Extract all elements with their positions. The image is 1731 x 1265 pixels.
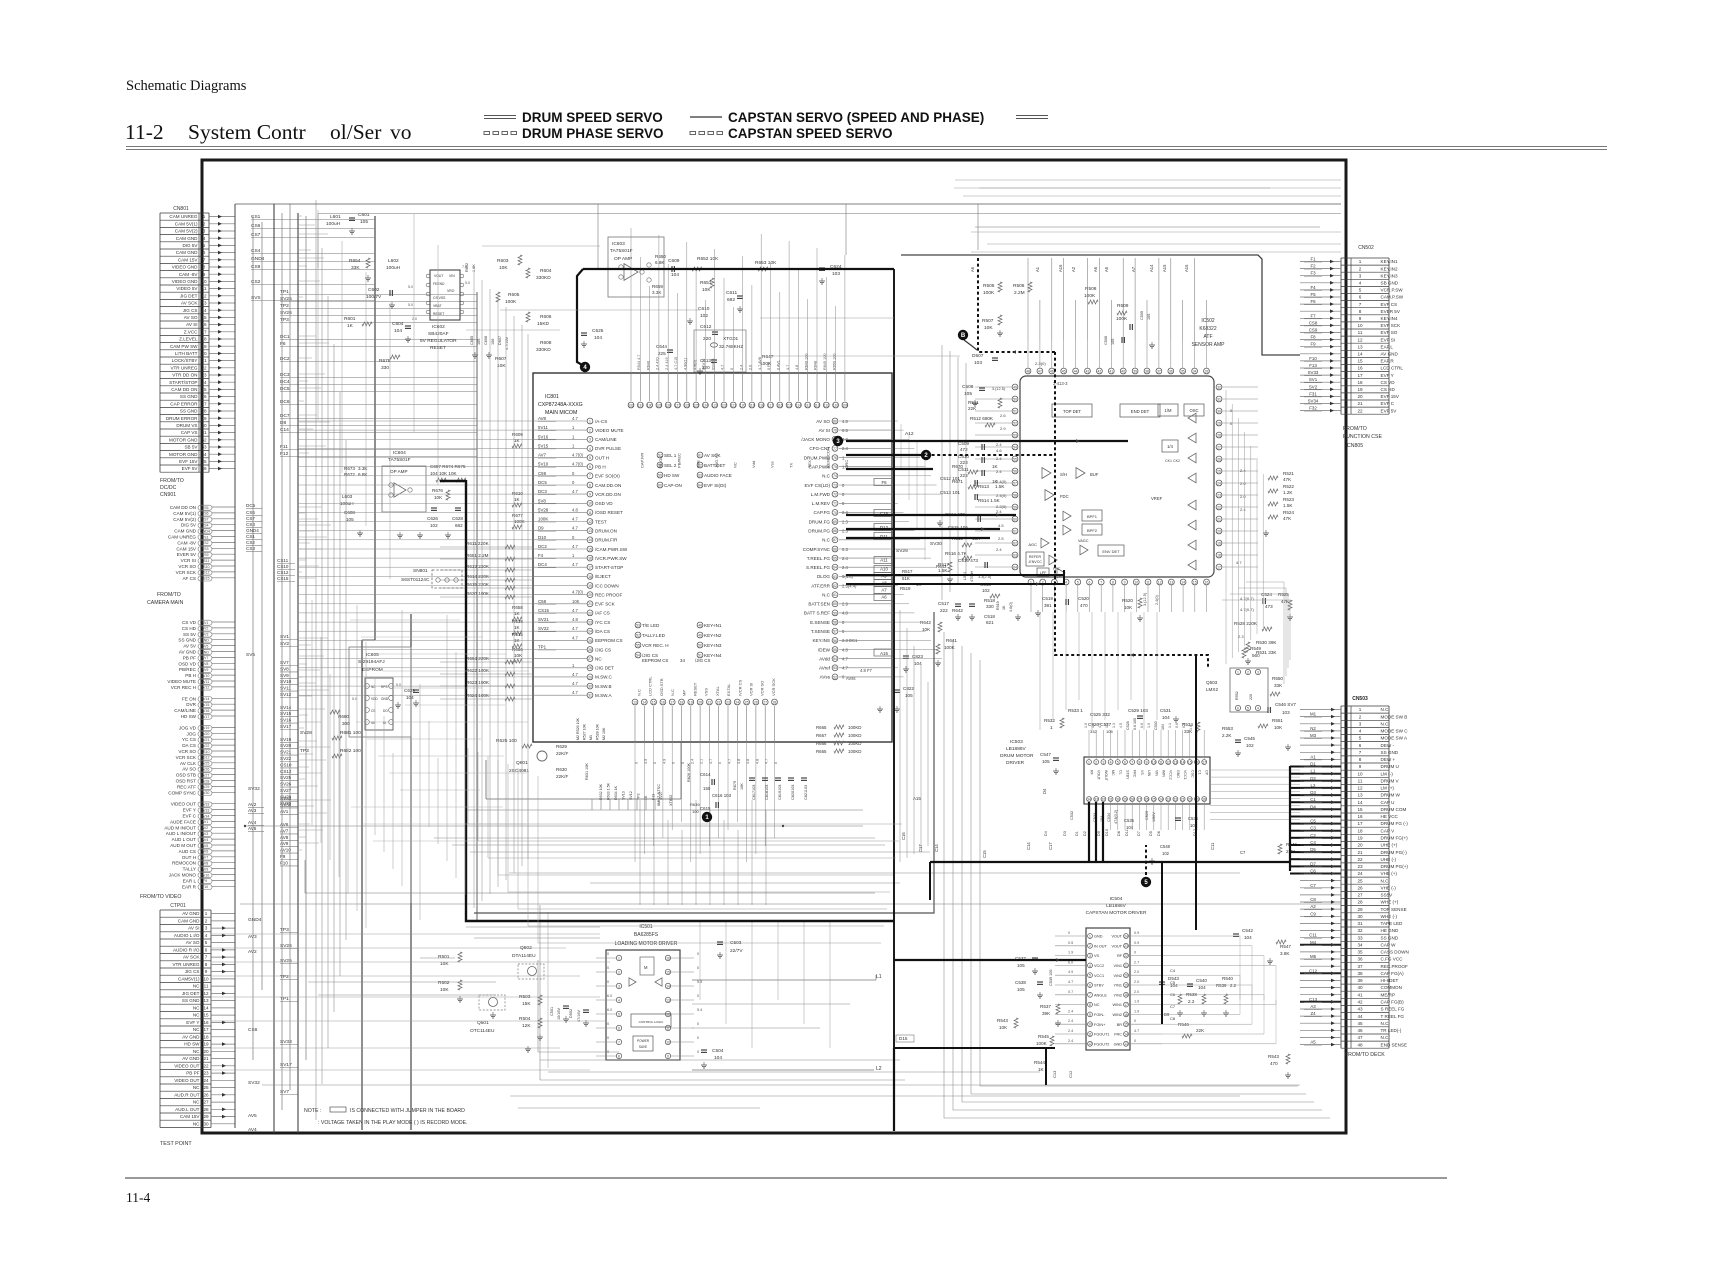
svg-text:2.4: 2.4 [1240,468,1246,473]
svg-text:WIN: WIN [1162,770,1166,777]
svg-text:0.6: 0.6 [1175,723,1179,728]
svg-text:10K: 10K [440,987,449,993]
svg-text:CS HD: CS HD [1381,387,1396,392]
svg-text:VIN: VIN [449,274,455,278]
svg-text:10K: 10K [984,325,993,331]
svg-text:VIDEO OUT: VIDEO OUT [174,1064,199,1069]
svg-text:OSD RST: OSD RST [176,779,197,784]
svg-text:R651: R651 [700,280,712,286]
svg-text:16: 16 [201,322,207,327]
svg-text:1.5K: 1.5K [995,484,1005,489]
svg-text:CS6: CS6 [202,512,209,516]
svg-text:IN OUT: IN OUT [1094,944,1108,948]
svg-text:1.8K: 1.8K [472,264,476,272]
svg-text:9: 9 [1124,580,1126,584]
svg-text:0.5: 0.5 [1068,941,1073,945]
svg-text:20: 20 [1357,843,1363,848]
svg-text:EVF SI: EVF SI [1381,337,1396,342]
svg-text:5: 5 [1077,580,1079,584]
svg-text:24: 24 [1159,797,1163,801]
svg-text:13: 13 [1357,344,1363,349]
svg-text:18: 18 [680,700,684,704]
svg-text:7: 7 [1131,760,1133,764]
svg-text:D607: D607 [498,336,502,345]
svg-text:12: 12 [1088,1042,1092,1046]
svg-text:AUD L IN/OUT: AUD L IN/OUT [166,831,196,836]
svg-text:PB PF: PB PF [186,1071,199,1076]
svg-text:VHE (+): VHE (+) [1381,871,1398,876]
svg-text:57: 57 [833,630,837,634]
svg-text:/DEW: /DEW [818,647,831,652]
svg-text:CS9: CS9 [202,553,209,557]
svg-text:SS GND: SS GND [182,998,200,1003]
svg-text:FROM/TO: FROM/TO [160,478,184,484]
svg-text:/VCR.PWR.SW: /VCR.PWR.SW [595,556,627,561]
svg-text:4.7: 4.7 [1134,1029,1139,1033]
svg-text:52: 52 [833,675,837,679]
svg-text:2.0: 2.0 [749,365,753,370]
svg-text:FRC: FRC [1114,1033,1122,1037]
svg-text:9: 9 [1359,316,1362,321]
svg-text:34: 34 [680,658,685,663]
svg-text:29: 29 [201,416,207,421]
svg-text:/AF CS: /AF CS [595,611,610,616]
svg-text:17: 17 [1357,373,1363,378]
svg-text:SVS: SVS [251,295,261,301]
svg-text:HE VCC: HE VCC [1381,814,1399,819]
svg-text:2: 2 [203,221,206,226]
svg-text:DRUM U: DRUM U [1381,764,1399,769]
svg-text:TEST: TEST [595,519,607,524]
svg-text:AV4: AV4 [248,1127,257,1133]
svg-text:26: 26 [1357,885,1363,890]
svg-text:REMOCON: REMOCON [172,861,196,866]
svg-text:M: M [644,965,648,970]
svg-text:C505: C505 [1140,311,1144,320]
svg-text:D9: D9 [538,526,544,531]
svg-text:REC PROOF: REC PROOF [595,593,623,598]
svg-text:/DA CS: /DA CS [595,629,610,634]
svg-text:22/7V: 22/7V [730,948,743,954]
svg-text:NC: NC [733,462,738,468]
svg-text:R550: R550 [1272,676,1283,681]
svg-text:35: 35 [201,459,207,464]
svg-text:63: 63 [1013,553,1017,557]
svg-text:F13: F13 [1309,363,1317,368]
svg-text:CAP-ON: CAP-ON [664,483,682,488]
svg-text:PB/REC: PB/REC [179,667,197,672]
svg-text:AV7: AV7 [280,828,289,833]
svg-text:F10: F10 [202,885,208,889]
svg-text:4: 4 [618,998,620,1002]
svg-text:C518: C518 [984,614,995,619]
svg-text:CS1: CS1 [251,214,261,220]
svg-text:SS GND: SS GND [180,394,198,399]
svg-text:CN801: CN801 [173,206,189,212]
svg-text:821: 821 [986,620,994,625]
svg-text:14: 14 [666,984,670,988]
svg-text:100uH: 100uH [386,265,401,271]
svg-text:SB 5V: SB 5V [184,445,198,450]
svg-text:AV SI: AV SI [188,926,199,931]
svg-text:CS6: CS6 [251,223,261,229]
svg-text:17: 17 [1124,1003,1128,1007]
svg-text:22: 22 [201,365,207,370]
svg-text:VRO: VRO [447,289,455,293]
svg-text:CAM.P.SW: CAM.P.SW [1381,295,1404,300]
svg-text:CAM.DD.ON: CAM.DD.ON [595,483,621,488]
svg-text:TRC: TRC [844,460,849,468]
svg-text:FROM/TO: FROM/TO [157,592,181,598]
svg-text:CAP VS: CAP VS [181,430,198,435]
svg-text:17: 17 [1202,760,1206,764]
svg-text:2.6: 2.6 [1000,413,1006,418]
svg-text:IS CONNECTED WITH JUMPER IN TH: IS CONNECTED WITH JUMPER IN THE BOARD [350,1108,465,1114]
svg-text:CS VD: CS VD [1381,380,1396,385]
svg-text:HD SW: HD SW [184,1042,200,1047]
svg-text:R524: R524 [1283,510,1294,515]
svg-text:14: 14 [203,1006,209,1011]
svg-text:T/E LED: T/E LED [642,623,660,628]
svg-text:C609: C609 [668,258,680,264]
svg-text:C644: C644 [656,344,667,349]
svg-text:5: 5 [1089,974,1091,978]
svg-text:12: 12 [201,293,207,298]
svg-text:M3: M3 [1310,733,1317,738]
svg-text:4.7: 4.7 [721,365,725,370]
svg-text:M2 R526 10K: M2 R526 10K [576,717,580,740]
svg-text:19: 19 [1217,541,1221,545]
svg-text:25: 25 [588,639,592,643]
svg-text:10K: 10K [572,599,580,604]
svg-text:DRUM COM: DRUM COM [1381,807,1407,812]
svg-text:1K: 1K [514,611,521,616]
svg-text:4: 4 [203,236,206,241]
svg-text:C13: C13 [1309,997,1318,1002]
svg-text:A3: A3 [1310,1004,1316,1009]
svg-text:104: 104 [594,335,602,341]
svg-text:/CC DOWN: /CC DOWN [595,583,619,588]
svg-text:VTR DD ON: VTR DD ON [172,373,197,378]
svg-text:TP3: TP3 [280,317,289,323]
svg-text:OSD VD: OSD VD [595,501,613,506]
svg-text:R613 220K: R613 220K [466,564,490,569]
svg-text:R540: R540 [1222,976,1233,981]
svg-text:39: 39 [1133,369,1137,373]
svg-text:C818103: C818103 [765,785,769,800]
svg-text:A16: A16 [1184,264,1189,272]
svg-text:43: 43 [1357,1007,1363,1012]
svg-text:59: 59 [1013,505,1017,509]
svg-text:VREF: VREF [1151,496,1163,501]
svg-text:DC2: DC2 [280,356,290,362]
svg-text:16: 16 [666,956,670,960]
svg-text:VCC2: VCC2 [1169,770,1173,780]
svg-text:DVR: DVR [186,702,196,707]
svg-text:51: 51 [1013,409,1017,413]
svg-text:100K: 100K [505,299,517,305]
svg-text:62: 62 [833,584,837,588]
svg-text:50: 50 [698,643,702,647]
svg-text:R516 4.7K: R516 4.7K [945,551,968,556]
svg-text:19: 19 [203,1042,209,1047]
svg-text:9: 9 [1146,760,1148,764]
svg-text:VDD: VDD [371,697,378,701]
svg-text:SV14: SV14 [201,697,210,701]
svg-text:R826 100K: R826 100K [687,763,691,782]
svg-text:DRUM.F/R: DRUM.F/R [595,538,618,543]
svg-text:F10: F10 [280,860,288,865]
svg-text:0: 0 [607,1022,609,1026]
svg-text:9: 9 [667,1054,669,1058]
svg-text:TA75S01F: TA75S01F [388,457,411,463]
svg-text:21: 21 [708,700,712,704]
svg-text:22: 22 [1124,954,1128,958]
svg-text:34: 34 [201,452,207,457]
svg-text:TEST POINT: TEST POINT [160,1141,192,1147]
svg-text:R677: R677 [512,513,523,518]
svg-text:SV5: SV5 [246,652,255,658]
svg-text:7: 7 [205,955,208,960]
svg-text:13: 13 [588,529,592,533]
svg-text:EVF CS(LD): EVF CS(LD) [804,483,830,488]
svg-text:C525 332: C525 332 [1090,712,1110,717]
svg-text:SV29: SV29 [201,785,210,789]
svg-text:VIN2: VIN2 [1114,974,1122,978]
svg-text:R615 220K: R615 220K [466,582,490,587]
svg-text:SV11: SV11 [201,680,210,684]
svg-text:3: 3 [589,438,591,442]
svg-text:WHE (-): WHE (-) [1381,914,1398,919]
svg-text:R638: R638 [512,619,523,624]
svg-text:1K: 1K [347,323,354,329]
svg-text:BATT S.REF: BATT S.REF [804,611,830,616]
svg-text:5.0: 5.0 [352,697,357,701]
svg-text:R519: R519 [996,601,1000,610]
svg-text:CAM DD ON: CAM DD ON [171,387,197,392]
svg-text:N.C: N.C [822,474,831,479]
svg-text:14: 14 [642,700,646,704]
svg-text:A12: A12 [905,431,914,437]
svg-text:F32: F32 [1309,406,1317,411]
svg-text:C545: C545 [1244,736,1255,741]
svg-text:IC603: IC603 [612,241,625,247]
svg-text:DRUM VS: DRUM VS [176,423,197,428]
svg-text:SV26: SV26 [201,768,210,772]
svg-text:-ENVCC: -ENVCC [1028,560,1042,564]
svg-text:AV GND: AV GND [182,911,200,916]
svg-text:15: 15 [1124,1023,1128,1027]
svg-text:C819103: C819103 [778,785,782,800]
svg-text:12: 12 [1357,337,1363,342]
svg-text:100uH: 100uH [326,221,341,227]
svg-text:113: 113 [805,403,811,407]
svg-text:5: 5 [203,243,206,248]
svg-text:GND4: GND4 [246,528,259,533]
svg-text:D3: D3 [1310,790,1316,795]
svg-text:AV7: AV7 [202,856,209,860]
svg-text:C12: C12 [1068,1070,1073,1078]
svg-text:BPF2: BPF2 [1087,528,1098,533]
svg-text:47K: 47K [1283,477,1292,482]
svg-text:ME/RP: ME/RP [1381,992,1396,997]
svg-text:10: 10 [1134,580,1138,584]
svg-text:L.M.REV: L.M.REV [812,501,831,506]
svg-text:EAP.L: EAP.L [1381,344,1394,349]
svg-text:40: 40 [1357,985,1363,990]
svg-text:5.0: 5.0 [396,683,401,687]
svg-text:102: 102 [1162,851,1170,856]
svg-text:0: 0 [697,994,699,998]
svg-text:22K: 22K [968,406,977,411]
svg-text:9: 9 [205,969,208,974]
svg-text:D502: D502 [569,1009,573,1018]
svg-text:EVF SI(DI): EVF SI(DI) [704,483,727,488]
svg-text:44: 44 [1357,1014,1363,1019]
svg-text:AV SCK: AV SCK [183,955,200,960]
svg-text:35: 35 [1357,950,1363,955]
svg-text:19: 19 [1124,983,1128,987]
svg-text:100: 100 [692,809,699,814]
svg-text:4.7: 4.7 [572,416,578,421]
svg-text:15: 15 [588,547,592,551]
svg-text:R543: R543 [1268,1054,1279,1059]
svg-text:0.7: 0.7 [1068,990,1073,994]
svg-text:C.FG VCC: C.FG VCC [1381,957,1404,962]
svg-text:6: 6 [1089,983,1091,987]
svg-text:60: 60 [658,483,662,487]
svg-text:C535: C535 [1124,818,1135,823]
svg-text:DO: DO [383,709,388,713]
svg-text:OP AMP: OP AMP [390,469,408,474]
svg-text:33K: 33K [351,265,360,271]
svg-text:TX: TX [788,463,793,468]
svg-text:DC3: DC3 [280,372,290,378]
svg-text:IC501: IC501 [639,924,653,930]
svg-text:53: 53 [833,666,837,670]
svg-text:14: 14 [588,538,592,542]
svg-text:131: 131 [637,403,643,407]
svg-text:S-29194AFJ: S-29194AFJ [358,659,385,665]
svg-text:COMP SYNC: COMP SYNC [168,790,196,795]
svg-text:UHE (-): UHE (-) [1381,857,1397,862]
svg-text:80: 80 [833,419,837,423]
svg-text:A16: A16 [880,651,888,656]
svg-text:C5: C5 [1170,980,1176,985]
svg-text:M.SW.B: M.SW.B [595,684,612,689]
svg-text:22: 22 [1357,408,1363,413]
svg-text:104: 104 [1244,935,1252,940]
svg-text:16: 16 [203,1020,209,1025]
svg-text:100K: 100K [1036,1041,1048,1046]
svg-text:0: 0 [681,762,685,764]
svg-text:22: 22 [203,1064,209,1069]
svg-text:STBY: STBY [1094,984,1104,988]
svg-text:EAR L: EAR L [183,878,197,883]
svg-text:AV9: AV9 [202,867,209,871]
svg-text:SV33: SV33 [1308,370,1319,375]
svg-text:CAMERA MAIN: CAMERA MAIN [147,600,184,606]
svg-text:K68322: K68322 [1199,326,1216,332]
svg-text:KEY.IN2: KEY.IN2 [1381,266,1398,271]
svg-text:R543: R543 [997,1018,1008,1023]
svg-text:7: 7 [618,1040,620,1044]
svg-text:GND: GND [201,650,209,654]
svg-text:13: 13 [1124,1042,1128,1046]
svg-text:SV1: SV1 [202,621,209,625]
svg-text:R545: R545 [1038,1034,1049,1039]
svg-text:1.3: 1.3 [1112,723,1116,728]
svg-text:8: 8 [1138,760,1140,764]
svg-text:DRUM ERROR: DRUM ERROR [166,416,198,421]
svg-text:CAP FG(A): CAP FG(A) [1381,971,1405,976]
svg-text:25: 25 [203,1085,209,1090]
svg-text:AV10: AV10 [201,873,210,877]
svg-text:2.0: 2.0 [1134,990,1139,994]
svg-text:WHE (+): WHE (+) [1381,900,1399,905]
svg-text:0: 0 [697,1022,699,1026]
svg-text:EVF 5V: EVF 5V [182,466,199,471]
svg-text:L1: L1 [1311,769,1316,774]
svg-text:31: 31 [1357,921,1363,926]
svg-text:SV20: SV20 [201,732,210,736]
svg-text:0: 0 [607,952,609,956]
svg-text:SV1: SV1 [280,634,289,640]
svg-text:SV7: SV7 [280,1089,289,1095]
svg-text:1K: 1K [514,497,521,502]
svg-text:AUD M OUT: AUD M OUT [170,843,196,848]
svg-text:4.7 AV8: 4.7 AV8 [758,357,762,370]
svg-text:DC4: DC4 [538,562,547,567]
svg-text:CS VSS: CS VSS [433,296,446,300]
svg-text:JOG VD: JOG VD [179,725,197,730]
svg-text:C547: C547 [1040,752,1051,757]
svg-text:20: 20 [1124,974,1128,978]
svg-text:A5: A5 [1310,1040,1316,1045]
svg-text:Schematic Diagrams: Schematic Diagrams [126,78,247,94]
svg-text:M1: M1 [589,735,593,740]
svg-text:55: 55 [833,648,837,652]
svg-text:GND: GND [201,639,209,643]
svg-text:/VCR CS: /VCR CS [737,679,742,696]
svg-text:VIDEO GND: VIDEO GND [172,265,198,270]
svg-text:473(0.2): 473(0.2) [1114,809,1118,824]
svg-text:20: 20 [1217,529,1221,533]
svg-text:R544: R544 [1034,1060,1045,1065]
svg-text:23: 23 [588,621,592,625]
svg-text:DEW -: DEW - [1381,743,1395,748]
svg-text:14: 14 [1357,352,1363,357]
svg-text:OTC114EU: OTC114EU [470,1028,495,1034]
svg-text:5: 5 [1359,736,1362,741]
svg-text:VSS: VSS [704,688,709,696]
svg-text:103: 103 [832,271,840,277]
svg-text:D7: D7 [1310,861,1316,866]
svg-text:104: 104 [1162,715,1170,720]
svg-text:R639: R639 [690,802,700,807]
svg-text:UHE (+): UHE (+) [1381,843,1398,848]
svg-text:0 AV1: 0 AV1 [777,360,781,370]
svg-text:A10: A10 [880,567,888,572]
svg-text:C15: C15 [982,850,987,858]
svg-text:104: 104 [1198,985,1206,990]
svg-text:32.768KHZ: 32.768KHZ [719,344,743,350]
svg-text:43: 43 [1086,369,1090,373]
svg-text:N.C: N.C [1381,1021,1390,1026]
svg-text:AV5: AV5 [248,826,257,831]
svg-text:VCC1: VCC1 [1183,770,1187,780]
svg-text:N.C: N.C [1381,878,1390,883]
